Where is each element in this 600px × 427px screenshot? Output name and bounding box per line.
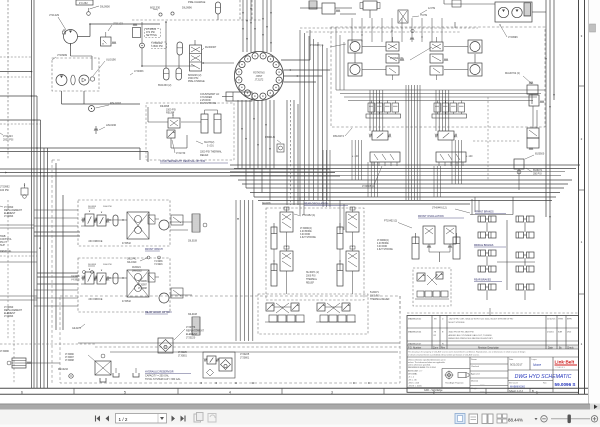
valve MAU0702 lower — [527, 128, 539, 150]
heat exchanger top — [309, 1, 317, 9]
svg-text:.030 ORIFICE: .030 ORIFICE — [88, 241, 103, 243]
wire feeds out rotation joint bottom fan — [238, 100, 274, 200]
svg-text:JTJ0993: JTJ0993 — [4, 315, 14, 318]
svg-text:.XX ± .06: .XX ± .06 — [408, 380, 417, 382]
svg-text:60J1330: 60J1330 — [150, 6, 161, 10]
brake cylinders middle — [478, 250, 534, 272]
label 3IL0731 — [196, 141, 214, 148]
wire manifold drop verticals right — [434, 140, 462, 197]
svg-text:Third Angle Projection: Third Angle Projection — [445, 382, 464, 385]
label hydraulic reservoir — [145, 371, 191, 382]
zone numbers bottom — [21, 388, 538, 394]
svg-text:09W0022: 09W0022 — [132, 271, 143, 273]
svg-text:Y4.9936: Y4.9936 — [71, 276, 80, 278]
svg-text:JTJ0997: JTJ0997 — [138, 285, 148, 287]
svg-text:REAR BRAKES: REAR BRAKES — [474, 279, 491, 282]
motor circle front winch right — [159, 215, 183, 303]
wire center verticals — [406, 85, 420, 200]
svg-text:JTJ1123: JTJ1123 — [113, 22, 123, 26]
svg-text:Layer: Layer — [532, 359, 537, 361]
valve manifold right travel — [430, 37, 482, 166]
svg-text:09J0021: 09J0021 — [132, 267, 142, 269]
svg-text:DIL0998: DIL0998 — [88, 264, 97, 266]
valve stack RLID0367 — [190, 45, 217, 71]
label e140 pair — [352, 156, 473, 158]
svg-text:REMOVED PREVIOUS REVISION HIST: REMOVED PREVIOUS REVISION HISTORY — [449, 338, 494, 340]
svg-text:4: 4 — [229, 390, 231, 394]
svg-text:PTJ0452 (2): PTJ0452 (2) — [384, 220, 397, 223]
label JTJ0998 (4) — [310, 44, 346, 47]
wire brake links — [487, 220, 535, 300]
svg-text:RLID0367: RLID0367 — [205, 46, 217, 49]
front osc assembly — [412, 226, 460, 262]
svg-text:1000 PSI: 1000 PSI — [103, 206, 112, 208]
wire arrow y172 — [5, 172, 7, 174]
svg-text:JTJ0801: JTJ0801 — [178, 356, 188, 358]
svg-text:RELIEF: RELIEF — [166, 112, 175, 115]
label 09J0021 — [132, 267, 143, 273]
svg-text:DIL0996: DIL0996 — [182, 6, 192, 10]
zone ticks right — [579, 34, 585, 346]
svg-text:JTJ0995: JTJ0995 — [138, 281, 148, 283]
svg-text:Y4.9915: Y4.9915 — [71, 280, 80, 282]
svg-text:Checked: Checked — [471, 366, 479, 368]
svg-text:DIL0900: DIL0900 — [100, 5, 110, 9]
wire rotation joint right links — [202, 30, 330, 82]
svg-text:JTJ0990: JTJ0990 — [65, 354, 75, 356]
svg-text:IN.25 STROKE: IN.25 STROKE — [200, 102, 217, 105]
svg-text:54J0071: 54J0071 — [370, 292, 380, 294]
label JTJ0225 JTJ0801 — [240, 353, 250, 360]
svg-text:CAD – Solid Edge: CAD – Solid Edge — [424, 389, 443, 392]
wire enclosure left edge verticals — [336, 27, 344, 90]
label JTJ0992 100 PSI — [0, 186, 10, 193]
label swing control block — [0, 235, 12, 253]
svg-text:JTJ0998: JTJ0998 — [65, 360, 75, 362]
label Y49936 left — [71, 271, 94, 282]
label counterweight cylinder — [200, 93, 219, 105]
svg-text:REAR OSCILLATION: REAR OSCILLATION — [304, 203, 328, 206]
wire verticals x287-298 — [287, 100, 298, 205]
svg-text:4.00 BORE: 4.00 BORE — [377, 243, 389, 245]
label NUJ0071 — [306, 272, 319, 285]
svg-text:GIL0276: GIL0276 — [72, 328, 82, 330]
wire left horiz y232 — [34, 232, 80, 236]
svg-text:BJR: BJR — [558, 332, 563, 334]
svg-text:JTJ0924 (6): JTJ0924 (6) — [390, 57, 404, 60]
label RSU0216 — [58, 369, 73, 378]
accumulator top — [216, 2, 221, 20]
svg-text:2600 PSI: 2600 PSI — [153, 45, 164, 48]
rear osc dashed box — [266, 208, 364, 300]
svg-text:MAU0702 (2): MAU0702 (2) — [505, 72, 520, 75]
label 65J1330 — [158, 84, 172, 87]
wire arrows on bottom dashed — [200, 382, 370, 384]
svg-text:TOTAL SYSTEM CAP = 360 GAL: TOTAL SYSTEM CAP = 360 GAL — [145, 378, 181, 381]
label JTJ0996 front osc — [377, 240, 393, 251]
svg-text:100 PSI: 100 PSI — [0, 189, 9, 192]
pump bottom left cluster — [65, 354, 111, 382]
svg-text:JTJ0998: JTJ0998 — [138, 288, 148, 290]
svg-text:MIDDLE BRAKES: MIDDLE BRAKES — [474, 244, 494, 247]
valve D7J0561 — [133, 24, 161, 38]
wire bottom horizontals — [78, 296, 400, 352]
wire top dashed bus — [132, 0, 262, 20]
svg-text:JTJ0225: JTJ0225 — [178, 352, 188, 354]
svg-text:JTJ0996(4): JTJ0996(4) — [300, 228, 312, 230]
label JTJ1323 2000 PSI — [0, 133, 14, 142]
wire manifold verticals — [370, 90, 449, 131]
svg-text:RSL0218: RSL0218 — [110, 101, 121, 105]
label rear oscillation — [304, 203, 348, 206]
wire top dashed bus right — [300, 8, 478, 32]
wire left horiz y284 — [37, 283, 78, 285]
svg-text:DWG HYD SCHEMATIC: DWG HYD SCHEMATIC — [515, 374, 572, 380]
svg-text:REMOVAL: REMOVAL — [0, 250, 12, 253]
label Y49936 right — [154, 261, 163, 266]
svg-text:JTJ0996: JTJ0996 — [508, 36, 518, 39]
wire feeds into rotation joint top — [242, 0, 272, 52]
svg-text:JTJ0999: JTJ0999 — [57, 53, 68, 57]
svg-text:1000 PSI: 1000 PSI — [103, 264, 112, 266]
svg-text:47J0542: 47J0542 — [122, 301, 132, 303]
hatch accumulator front winch — [188, 214, 207, 243]
valve 65J0500 — [514, 153, 545, 176]
filter assembly right — [203, 352, 235, 378]
svg-text:Link·Belt: Link·Belt — [555, 360, 575, 365]
sheet inner border bottom — [0, 387, 588, 389]
wire left-of-manifold bundle — [323, 150, 330, 207]
wire left horiz y120 — [0, 120, 41, 124]
horizontal scrollbar — [0, 404, 600, 411]
svg-text:ISO Level: ISO Level — [509, 383, 518, 385]
svg-text:2000 PSI: 2000 PSI — [306, 276, 316, 278]
cylinder counterweight — [222, 92, 252, 101]
svg-text:JTJ0996(2): JTJ0996(2) — [377, 240, 389, 242]
dashed enclosure travel manifolds — [331, 27, 545, 127]
wire drops to rear osc — [300, 197, 479, 230]
svg-text:Zone: Zone — [433, 347, 439, 349]
svg-text:ADDED BH CYLINDER CALLOUT, T0J: ADDED BH CYLINDER CALLOUT, T0J0490 — [449, 334, 493, 337]
label JTJ0996 pump — [499, 24, 518, 39]
svg-text:3IL0276: 3IL0276 — [262, 202, 271, 205]
meter 0.262 box — [76, 0, 93, 5]
svg-text:MAB8802007: MAB8802007 — [408, 342, 422, 345]
svg-text:B: B — [532, 389, 534, 393]
svg-text:PRE-CHARGE: PRE-CHARGE — [188, 80, 205, 83]
svg-text:PRE-CHARGE: PRE-CHARGE — [188, 0, 206, 4]
accumulator pair 68J0226 — [164, 68, 206, 83]
svg-text:e .140: e .140 — [352, 156, 359, 158]
wire center-bottom verticals — [236, 200, 253, 341]
wire verticals x300-330 bundle — [300, 30, 327, 200]
svg-text:350 PSI: 350 PSI — [533, 173, 542, 176]
svg-text:65J0500: 65J0500 — [535, 153, 545, 156]
wire right vertical feeds — [545, 0, 555, 217]
svg-text:59.0096 S: 59.0096 S — [555, 382, 576, 387]
valve L8L0190 symbol — [94, 123, 117, 134]
filter small mid labels — [178, 352, 188, 358]
tanks bottom — [113, 368, 139, 377]
svg-text:J7J0363: J7J0363 — [134, 70, 144, 73]
wire left horiz bundle y148 — [0, 148, 148, 162]
label JTJ0924 (6) — [390, 47, 432, 60]
toolbar background — [0, 410, 600, 427]
label J7J0363 — [130, 70, 144, 75]
valve ULI0190 circle — [79, 58, 116, 86]
svg-text:L8L0190: L8L0190 — [106, 123, 117, 127]
svg-text:REAR WINCH OPTION: REAR WINCH OPTION — [145, 311, 172, 314]
valve top x322 — [316, 3, 343, 14]
dashed enclosure counterweight — [146, 103, 234, 160]
svg-text:Weight: Weight — [471, 387, 478, 390]
svg-text:30L0108: 30L0108 — [188, 241, 198, 243]
svg-text:6: 6 — [21, 390, 23, 394]
svg-text:REFERENCE ASME Y14.5-1994: REFERENCE ASME Y14.5-1994 — [408, 366, 436, 369]
wire rear winch links — [34, 290, 192, 306]
svg-text:JOINT: JOINT — [256, 76, 263, 78]
svg-text:# 0.262: # 0.262 — [79, 1, 88, 5]
svg-text:Approved: Approved — [471, 372, 480, 375]
svg-text:Y4.9936: Y4.9936 — [154, 261, 163, 263]
svg-text:4.627 STROKE: 4.627 STROKE — [300, 237, 316, 239]
cylinder pair counterweight — [201, 110, 221, 133]
svg-text:JTJ0997: JTJ0997 — [65, 357, 75, 359]
valve top x363 — [360, 1, 380, 18]
svg-text:JTH0449 (12): JTH0449 (12) — [432, 207, 447, 210]
svg-text:ULI0190: ULI0190 — [106, 58, 116, 62]
valve counterweight manifold — [168, 112, 180, 128]
svg-text:COUNTERWEIGHT REMOVAL OPTION: COUNTERWEIGHT REMOVAL OPTION — [160, 160, 205, 163]
label replacement element 1 — [0, 206, 22, 218]
wire left dashed vert lower — [8, 200, 14, 383]
svg-text:SETTING: SETTING — [146, 34, 157, 37]
toolbar zoom controls — [455, 414, 598, 424]
svg-text:JTJ0993: JTJ0993 — [4, 215, 14, 218]
svg-text:3000 PSI W HO 4849 PSI: 3000 PSI W HO 4849 PSI — [449, 332, 475, 334]
svg-text:1 / 2: 1 / 2 — [119, 417, 128, 422]
svg-text:JKG: JKG — [567, 332, 572, 334]
toolbar page navigation — [96, 413, 217, 424]
label RSU0274 — [333, 128, 352, 138]
label DIL0998 relief — [160, 105, 176, 115]
brake cylinders front — [478, 216, 534, 238]
pump circle in JTJ0999 — [56, 75, 67, 86]
wire left horiz bundle y172 — [0, 169, 340, 176]
wire manifold crossbus — [336, 90, 545, 101]
label 30L0741 30L0199 — [127, 256, 161, 264]
dashed boundary left mid — [52, 160, 60, 383]
svg-text:e .140: e .140 — [466, 156, 473, 158]
svg-text:.XXX ± .003: .XXX ± .003 — [408, 383, 420, 385]
svg-text:DECIMAL: DECIMAL — [408, 373, 418, 376]
svg-text:JTJ0996: JTJ0996 — [0, 351, 10, 353]
svg-text:3.00 ROD: 3.00 ROD — [300, 234, 311, 236]
label 12 PSI — [420, 7, 436, 14]
label PTJ0452 (2) — [384, 220, 412, 229]
svg-text:3: 3 — [331, 390, 333, 394]
svg-text:75 PSI: 75 PSI — [420, 14, 428, 17]
label front oscillation — [418, 215, 464, 218]
svg-text:RELIEF: RELIEF — [200, 154, 209, 157]
wire left dashed vertical bus — [7, 0, 9, 160]
svg-text:JTJ1229: JTJ1229 — [49, 13, 60, 17]
svg-text:ANGULAR ± 1°: ANGULAR ± 1° — [408, 370, 422, 373]
label front brakes — [475, 211, 506, 214]
svg-text:JTJ0998 (4): JTJ0998 (4) — [310, 44, 324, 47]
sheet border right double — [579, 0, 585, 394]
wire mid horizontal bundle right of winches — [230, 165, 580, 204]
valve JTJ0924 right — [519, 95, 544, 190]
label 3IL0276 front — [262, 202, 271, 205]
accumulator mid — [177, 42, 183, 55]
pump cluster bottom mid — [138, 281, 148, 290]
svg-text:30L0108: 30L0108 — [188, 314, 198, 316]
svg-text:47J0542: 47J0542 — [122, 243, 132, 245]
svg-text:PTJ0452 (4): PTJ0452 (4) — [302, 214, 315, 217]
valve manifold left travel — [348, 37, 404, 166]
label 3200 PSI thermal relief — [200, 151, 223, 158]
svg-text:2/1016: 2/1016 — [547, 332, 554, 334]
valve JTJ1123 — [101, 22, 124, 47]
wire above title block — [407, 308, 578, 315]
svg-text:ROTATING: ROTATING — [253, 72, 265, 75]
svg-text:Check: Check — [567, 347, 574, 349]
svg-text:FRONT OSCILLATION: FRONT OSCILLATION — [418, 215, 444, 218]
wire counterweight cluster — [148, 107, 201, 148]
svg-text:THERMAL: THERMAL — [306, 278, 318, 281]
label JTJ0905 (2) — [362, 166, 382, 188]
winch circuit rear — [78, 258, 172, 314]
svg-text:FRONT WINCH: FRONT WINCH — [145, 248, 163, 251]
wire right verticals to brakes — [549, 216, 551, 290]
relief valve JTJ1730 — [167, 130, 186, 155]
svg-text:2000 PSI: 2000 PSI — [3, 139, 14, 142]
cylinder rear osc column left — [271, 207, 293, 294]
svg-text:MAB8802004: MAB8802004 — [408, 331, 422, 334]
valve DIL0900 pilot circle — [87, 5, 111, 16]
svg-text:Sheet 1 of 2: Sheet 1 of 2 — [509, 389, 524, 393]
filter JTJ0776 — [158, 326, 204, 353]
wire left vertical bundle — [37, 96, 48, 388]
relief manifold bottom right — [316, 303, 356, 322]
pump JTJ1229 — [49, 13, 78, 46]
label 54J0071 thermal — [370, 292, 390, 301]
gauge J7B0002 — [140, 42, 167, 49]
label GIL0276 — [72, 324, 85, 330]
dashed boundary bottom area — [60, 296, 400, 383]
svg-text:EHR: EHR — [567, 319, 572, 321]
svg-text:HYDRAULIC RESERVOIR: HYDRAULIC RESERVOIR — [145, 371, 174, 374]
vertical scrollbar — [589, 0, 600, 404]
svg-text:D5R01J5: D5R01J5 — [265, 136, 276, 139]
relief manifold bottom left — [265, 303, 305, 322]
wire precharge row links — [141, 21, 195, 68]
front osc relief manifold dashed — [413, 268, 451, 306]
svg-text:JTJ0801: JTJ0801 — [240, 357, 250, 360]
hatch accumulator rear winch — [188, 314, 200, 335]
label PRE-CHARGE top — [188, 0, 206, 4]
valve MAU0702 upper — [527, 82, 538, 105]
wire wf links — [34, 210, 192, 230]
svg-text:JTJ1730: JTJ1730 — [176, 152, 186, 155]
wire brakes feed — [470, 197, 513, 215]
svg-text:MAB8802002: MAB8802002 — [408, 318, 422, 321]
title block — [407, 316, 579, 393]
gear symbol in JTJ0999 — [71, 75, 75, 85]
svg-text:5 .001: 5 .001 — [207, 145, 214, 148]
svg-text:DIL0998: DIL0998 — [88, 206, 97, 208]
wire motor-stack links — [355, 47, 475, 70]
node junction dots left — [31, 71, 45, 177]
wire JTJ0999 down — [62, 56, 93, 104]
svg-text:12 PSI: 12 PSI — [428, 7, 436, 10]
wire left vertical x56 — [56, 163, 63, 330]
svg-text:FRONT BRAKES: FRONT BRAKES — [475, 211, 494, 214]
svg-text:.030 ORIFICE: .030 ORIFICE — [88, 299, 103, 301]
svg-text:Y4.9916: Y4.9916 — [154, 264, 163, 266]
svg-text:or detail contained herein is: or detail contained herein is prohibited… — [408, 353, 480, 356]
svg-text:RELIEF: RELIEF — [306, 283, 315, 285]
brake cylinders rear — [478, 284, 534, 290]
label JTH0449 — [432, 207, 470, 214]
wire left vertical bus pair — [32, 0, 35, 388]
sheet outer border bottom — [0, 393, 588, 395]
svg-text:30L0199: 30L0199 — [127, 261, 137, 264]
label D5R01J5 — [265, 136, 284, 152]
svg-text:88.44%: 88.44% — [508, 418, 523, 423]
wire top feeds enclosure — [352, 18, 442, 42]
svg-text:11/02/15: 11/02/15 — [547, 319, 556, 321]
svg-text:C R A N E S: C R A N E S — [556, 366, 566, 369]
svg-text:Rev: Rev — [543, 383, 547, 385]
svg-text:P.O. Number: P.O. Number — [408, 346, 421, 349]
label 60J1330 — [150, 6, 162, 17]
valve JTJ0992 — [21, 183, 28, 198]
svg-text:4.00 BORE: 4.00 BORE — [300, 231, 312, 233]
svg-text:None: None — [533, 363, 541, 367]
wire pump to manifold — [62, 23, 161, 104]
svg-text:Date: Date — [548, 346, 554, 349]
component bottom-left small — [0, 351, 31, 368]
label middle brakes — [474, 244, 506, 247]
svg-text:This drawing is the property o: This drawing is the property of Link-Bel… — [408, 350, 525, 353]
svg-text:9/21/2017: 9/21/2017 — [510, 363, 523, 367]
cylinder rear osc column right — [337, 207, 359, 294]
winch circuit front — [78, 200, 170, 251]
pump unit JTJ0996 top right — [495, 2, 532, 22]
wire left horiz y273 — [37, 247, 78, 277]
svg-text:Material: Material — [471, 379, 479, 382]
label PTJ0452 (4) — [294, 214, 315, 217]
label MAU0702 (2) — [505, 72, 532, 84]
label rear brakes — [474, 279, 502, 282]
check valve 75psi — [398, 10, 428, 40]
wire left horizontal stubs — [0, 57, 37, 96]
svg-text:NL00? STROKE: NL00? STROKE — [449, 322, 466, 324]
wire left stubs lower — [0, 225, 37, 300]
svg-text:5: 5 — [124, 390, 126, 394]
label counterweight removal option — [160, 160, 228, 163]
wire manifold drop verticals left — [352, 140, 378, 197]
svg-text:JTJ0905 (2): JTJ0905 (2) — [362, 185, 375, 188]
dashed box bottom manifolds — [258, 294, 368, 334]
label JTJ0996 rear — [300, 228, 316, 239]
dashed option boundary right — [473, 97, 545, 180]
wire top right bus — [444, 0, 546, 28]
svg-text:.X ± .1: .X ± .1 — [408, 377, 415, 379]
svg-text:RSU0274: RSU0274 — [333, 135, 344, 138]
